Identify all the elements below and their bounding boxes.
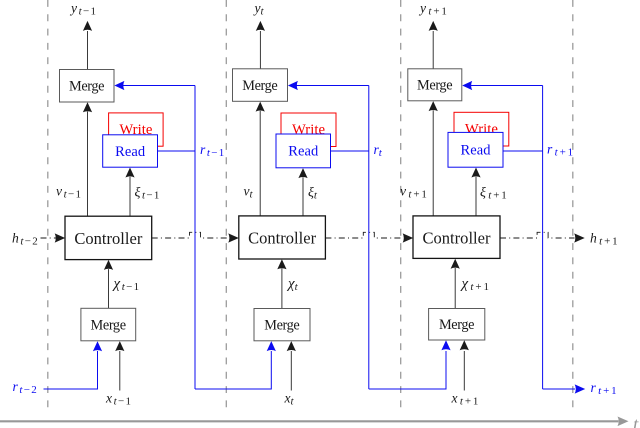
dashed separator line 1 xyxy=(47,0,49,413)
controller box 3 xyxy=(413,216,500,259)
wire Read 2 output to r vertical xyxy=(331,150,369,152)
merge top box 3 xyxy=(408,69,462,101)
svg-text:Controller: Controller xyxy=(74,229,143,248)
wire r vertical (blue) column 3 xyxy=(542,86,544,390)
wire chi (Merge bottom 1 to Controller 1) xyxy=(108,269,110,308)
merge bottom box 1 xyxy=(81,308,136,341)
wire x input into Merge bottom 3 xyxy=(463,351,465,391)
wire Merge top 2 to y output xyxy=(259,31,261,69)
wire Merge top 3 to y output xyxy=(432,31,434,69)
wire v (Controller 2 to Merge top 2) xyxy=(259,111,261,216)
merge top box 2 xyxy=(233,69,288,102)
wire r_{t+1} output arrow (bottom right) xyxy=(543,388,575,390)
svg-text:Controller: Controller xyxy=(248,229,317,248)
wire v (Controller 1 to Merge top 1) xyxy=(87,112,89,217)
svg-text:t: t xyxy=(633,415,639,428)
wire Controller 2 to Controller 3 (dash-dot, hop over blue) xyxy=(325,232,403,238)
time axis arrowhead xyxy=(618,417,629,427)
svg-text:Merge: Merge xyxy=(242,78,278,94)
wire r from column 1 to Merge bottom of column 2 (blue) xyxy=(195,351,271,389)
svg-text:Controller: Controller xyxy=(423,228,492,247)
controller box 2 xyxy=(239,216,326,259)
read box R3 (blue) xyxy=(448,132,503,167)
wire r vertical (blue) column 2 xyxy=(368,86,370,390)
dashed separator line 4 xyxy=(572,0,574,413)
svg-text:Read: Read xyxy=(288,144,319,160)
svg-text:Merge: Merge xyxy=(264,317,300,333)
controller box 1 xyxy=(65,216,152,259)
wire v (Controller 3 to Merge top 3) xyxy=(432,110,434,216)
wire r into Merge top 2 (blue arrow) xyxy=(297,85,369,87)
wire Read 3 output to r vertical xyxy=(503,150,543,152)
wire r into Merge top 3 (blue arrow) xyxy=(471,85,543,87)
wire r into Merge top 1 (blue arrow) xyxy=(123,85,195,87)
wire chi (Merge bottom 2 to Controller 2) xyxy=(281,269,283,309)
wire x input into Merge bottom 2 xyxy=(290,351,292,391)
write box W1 (red) xyxy=(109,113,164,146)
wire r from column 2 to Merge bottom of column 3 (blue) xyxy=(369,351,446,389)
merge bottom box 2 xyxy=(254,309,310,341)
read box R1 (blue) xyxy=(103,135,158,167)
wire chi (Merge bottom 3 to Controller 3) xyxy=(454,268,456,309)
svg-text:Merge: Merge xyxy=(439,317,475,333)
wire x input into Merge bottom 1 xyxy=(119,351,121,391)
svg-text:Read: Read xyxy=(115,144,146,160)
merge bottom box 3 xyxy=(429,309,485,341)
svg-text:Merge: Merge xyxy=(69,78,105,94)
wire h_{t-2} to Controller 1 (dash-dot) xyxy=(41,237,57,239)
write box W3 (red) xyxy=(454,112,509,146)
svg-text:Merge: Merge xyxy=(417,78,453,94)
write box W2 (red) xyxy=(281,113,336,147)
wire Merge top 1 to y output xyxy=(87,31,89,70)
wire Controller 1 to Controller 2 (dash-dot, hop over blue) xyxy=(152,232,229,238)
wire Controller 3 to h_{t+1} (dash-dot, hop over blue) xyxy=(500,232,575,238)
dashed separator line 3 xyxy=(400,0,402,413)
wire Read 1 output to r vertical xyxy=(158,150,196,152)
wire r_{t-2} into Merge (bottom, col 1) xyxy=(44,351,98,389)
wire xi (Controller 3 to Read 3) xyxy=(475,177,477,216)
svg-text:Merge: Merge xyxy=(91,317,127,333)
wire xi (Controller 1 to Read 1) xyxy=(129,177,131,217)
svg-text:Read: Read xyxy=(461,143,492,159)
wire r vertical (blue) column 1 xyxy=(194,86,196,390)
time axis xyxy=(0,420,619,422)
read box R2 (blue) xyxy=(276,134,331,168)
dashed separator line 2 xyxy=(225,0,227,413)
merge top box 1 xyxy=(60,70,115,103)
wire xi (Controller 2 to Read 2) xyxy=(302,177,304,216)
